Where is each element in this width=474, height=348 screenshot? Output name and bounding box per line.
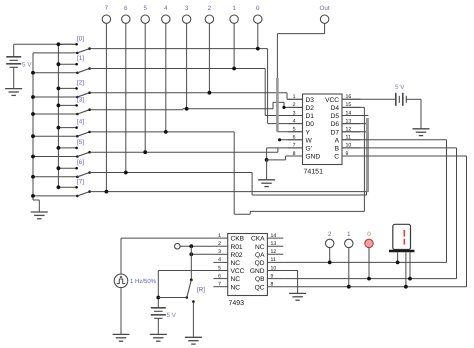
svg-text:10: 10 — [271, 265, 277, 271]
svg-text:[7]: [7] — [77, 178, 84, 185]
svg-text:5 V: 5 V — [395, 84, 405, 91]
svg-text:4: 4 — [293, 118, 296, 124]
svg-text:7: 7 — [218, 282, 221, 288]
svg-text:[1]: [1] — [77, 55, 84, 62]
svg-text:7: 7 — [105, 5, 109, 12]
svg-text:[0]: [0] — [77, 35, 84, 42]
svg-text:D0: D0 — [306, 121, 315, 128]
svg-text:GND: GND — [306, 154, 321, 161]
svg-text:Y: Y — [306, 129, 311, 136]
svg-text:D1: D1 — [306, 113, 315, 120]
svg-text:R01: R01 — [231, 244, 243, 251]
svg-text:4: 4 — [218, 257, 221, 263]
svg-text:2: 2 — [328, 231, 332, 238]
svg-text:D6: D6 — [331, 121, 340, 128]
svg-text:0: 0 — [367, 231, 371, 238]
svg-text:3: 3 — [293, 110, 296, 116]
svg-text:5: 5 — [218, 265, 221, 271]
svg-text:5: 5 — [293, 127, 296, 133]
svg-text:2: 2 — [293, 102, 296, 108]
svg-text:NC: NC — [231, 276, 241, 283]
svg-text:6: 6 — [124, 5, 128, 12]
svg-text:D3: D3 — [306, 97, 315, 104]
svg-text:7493: 7493 — [229, 300, 245, 307]
svg-text:[R]: [R] — [197, 287, 205, 294]
svg-text:VCC: VCC — [231, 268, 245, 275]
svg-text:NC: NC — [255, 244, 265, 251]
svg-text:12: 12 — [271, 249, 277, 255]
svg-text:QA: QA — [255, 252, 265, 259]
svg-text:NC: NC — [231, 260, 241, 267]
svg-text:[6]: [6] — [77, 159, 84, 166]
svg-text:1 Hz/50%: 1 Hz/50% — [130, 278, 157, 285]
svg-text:D4: D4 — [331, 105, 340, 112]
svg-text:1: 1 — [293, 94, 296, 100]
svg-text:GND: GND — [250, 268, 265, 275]
svg-text:VCC: VCC — [325, 97, 339, 104]
svg-text:2: 2 — [208, 5, 212, 12]
svg-text:14: 14 — [271, 233, 277, 239]
svg-text:3: 3 — [185, 5, 189, 12]
svg-text:[5]: [5] — [77, 139, 84, 146]
svg-text:12: 12 — [346, 127, 352, 133]
svg-text:13: 13 — [346, 118, 352, 124]
svg-text:2: 2 — [218, 241, 221, 247]
svg-text:14: 14 — [346, 110, 352, 116]
svg-text:15: 15 — [346, 102, 352, 108]
svg-text:8: 8 — [271, 282, 274, 288]
svg-text:QC: QC — [255, 284, 265, 291]
svg-text:11: 11 — [271, 257, 276, 263]
svg-text:C: C — [334, 154, 339, 161]
svg-text:CKB: CKB — [231, 236, 245, 243]
svg-text:A: A — [335, 137, 340, 144]
svg-text:R02: R02 — [231, 252, 243, 259]
svg-text:7: 7 — [293, 143, 296, 149]
svg-text:NC: NC — [231, 284, 241, 291]
svg-text:6: 6 — [218, 273, 221, 279]
svg-text:CKA: CKA — [251, 236, 265, 243]
svg-text:9: 9 — [271, 273, 274, 279]
svg-text:8: 8 — [293, 151, 296, 157]
svg-text:1: 1 — [347, 231, 351, 238]
svg-text:D2: D2 — [306, 105, 315, 112]
svg-text:4: 4 — [164, 5, 168, 12]
svg-text:[4]: [4] — [77, 119, 84, 126]
svg-text:[2]: [2] — [77, 79, 84, 86]
svg-text:74151: 74151 — [304, 169, 324, 176]
svg-text:6: 6 — [293, 135, 296, 141]
svg-text:0: 0 — [256, 5, 260, 12]
svg-text:1: 1 — [232, 5, 236, 12]
svg-text:Out: Out — [320, 5, 330, 12]
svg-text:D5: D5 — [331, 113, 340, 120]
svg-text:[3]: [3] — [77, 96, 84, 103]
svg-text:13: 13 — [271, 241, 277, 247]
svg-text:5 V: 5 V — [167, 312, 177, 319]
svg-text:W: W — [306, 137, 313, 144]
svg-text:QD: QD — [255, 260, 265, 267]
svg-text:B: B — [335, 146, 340, 153]
svg-text:5: 5 — [143, 5, 147, 12]
svg-text:1: 1 — [218, 233, 221, 239]
svg-text:QB: QB — [255, 276, 265, 283]
svg-text:5 V: 5 V — [22, 61, 32, 68]
svg-text:3: 3 — [218, 249, 221, 255]
svg-text:G′: G′ — [306, 146, 313, 153]
svg-text:D7: D7 — [331, 129, 340, 136]
